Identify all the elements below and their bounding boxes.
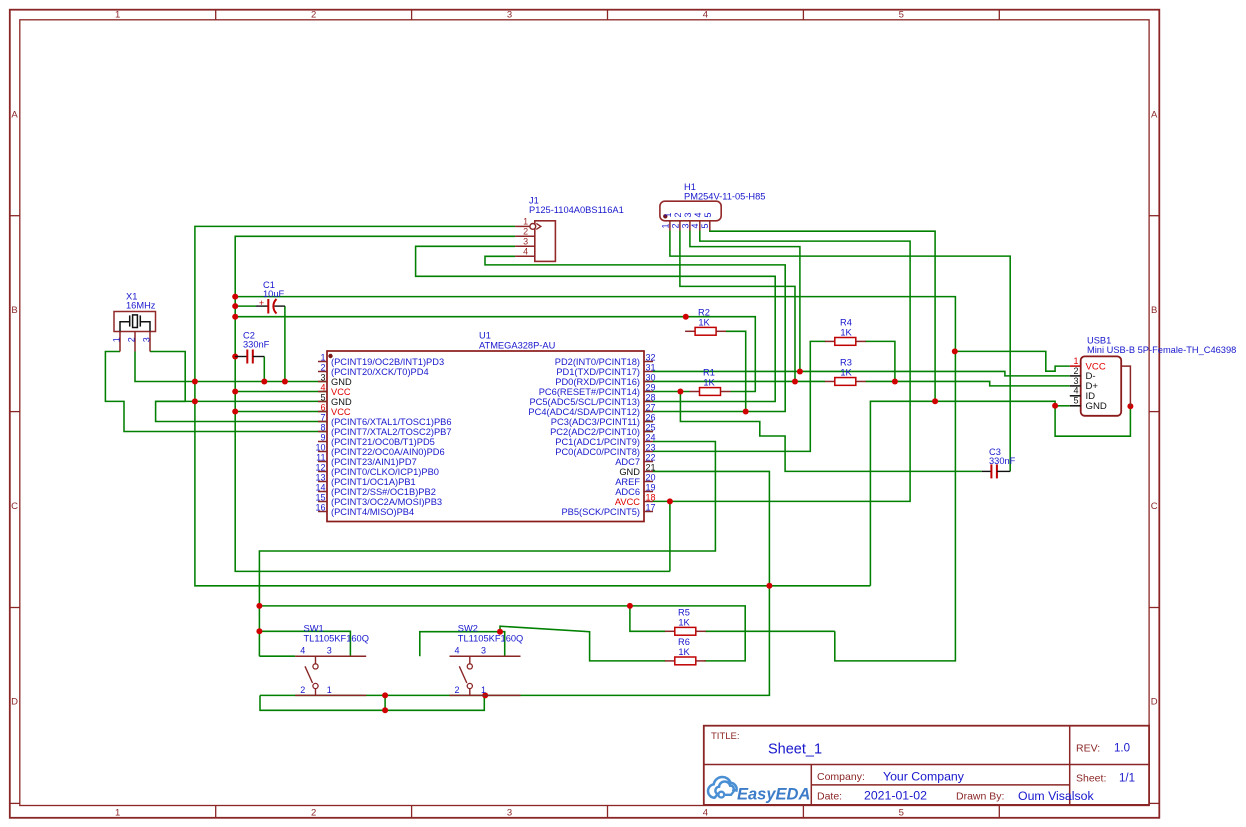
svg-text:4: 4 [455,645,460,655]
IC U1 pin 28 [644,401,653,403]
svg-text:R2: R2 [698,307,710,317]
svg-text:16MHz: 16MHz [126,301,156,311]
svg-text:4: 4 [703,10,708,21]
svg-text:1: 1 [1073,356,1078,366]
svg-text:22: 22 [646,452,656,462]
IC U1 pin 5 [318,401,327,403]
svg-text:1K: 1K [678,617,690,627]
switch SW2 contacts [450,655,521,657]
svg-text:(PCINT6/XTAL1/TOSC1)PB6: (PCINT6/XTAL1/TOSC1)PB6 [331,417,452,427]
svg-text:U1: U1 [479,331,491,341]
IC U1 pin 18 [644,501,653,503]
svg-text:3: 3 [683,212,693,217]
IC U1 pin 25 [644,431,653,433]
IC U1 pin 31 [644,371,653,373]
svg-text:3: 3 [507,10,512,21]
IC U1 pin 26 [644,421,653,423]
svg-text:3: 3 [142,337,152,342]
svg-text:13: 13 [315,472,325,482]
svg-text:Company:: Company: [817,771,865,783]
svg-text:1K: 1K [703,378,715,388]
svg-text:3: 3 [507,808,512,819]
svg-text:ATMEGA328P-AU: ATMEGA328P-AU [479,340,555,350]
svg-text:1/1: 1/1 [1119,773,1135,785]
connector H1 pins [669,221,671,231]
svg-text:2: 2 [311,808,316,819]
svg-text:26: 26 [646,412,656,422]
svg-text:2: 2 [523,227,528,237]
IC U1 pin 3 [318,381,327,383]
svg-text:20: 20 [646,472,656,482]
IC U1 pin 13 [318,481,327,483]
svg-text:R6: R6 [678,637,690,647]
svg-text:PC1(ADC1/PCINT9): PC1(ADC1/PCINT9) [555,437,640,447]
wire R5 right to VCC drop [705,630,835,632]
svg-text:(PCINT1/OC1A)PB1: (PCINT1/OC1A)PB1 [331,477,416,487]
svg-text:28: 28 [646,392,656,402]
svg-text:H1: H1 [684,182,696,192]
svg-text:1K: 1K [698,317,710,327]
connector J1 pins [515,225,530,227]
IC U1 pin 17 [644,511,653,513]
svg-text:4: 4 [523,247,528,257]
svg-text:R1: R1 [703,368,715,378]
svg-text:4: 4 [690,223,700,228]
wire H1 pin1 to C3 right [670,231,1010,472]
svg-text:2: 2 [320,362,325,372]
svg-text:5: 5 [320,392,325,402]
svg-text:330nF: 330nF [243,340,270,350]
svg-text:(PCINT3/OC2A/MOSI)PB3: (PCINT3/OC2A/MOSI)PB3 [331,497,442,507]
svg-text:17: 17 [646,502,656,512]
wire H1 pin5 to GND net [710,231,935,402]
svg-text:19: 19 [646,482,656,492]
svg-text:GND: GND [331,377,352,387]
svg-text:10uF: 10uF [263,289,285,299]
wire PD1 TXD row to USB D- [653,371,1070,375]
svg-text:(PCINT0/CLKO/ICP1)PB0: (PCINT0/CLKO/ICP1)PB0 [331,467,439,477]
svg-text:PC6(RESET#/PCINT14): PC6(RESET#/PCINT14) [539,387,640,397]
svg-text:9: 9 [320,432,325,442]
IC U1 pin 4 [318,391,327,393]
svg-text:SW2: SW2 [458,624,478,634]
svg-text:3: 3 [1073,376,1078,386]
svg-text:R3: R3 [840,358,852,368]
svg-text:PC5(ADC5/SCL/PCINT13): PC5(ADC5/SCL/PCINT13) [529,397,640,407]
svg-text:R5: R5 [678,607,690,617]
wire C1 negative to GND [284,306,286,381]
wire PC1 pin24 to SW1 rail [259,442,715,657]
IC U1 pin 16 [318,511,327,513]
svg-text:3: 3 [320,372,325,382]
svg-text:Sheet_1: Sheet_1 [768,742,822,758]
wire X1 pin1 to XTAL2 [105,352,653,432]
svg-text:10: 10 [315,442,325,452]
svg-text:32: 32 [646,352,656,362]
svg-text:P125-1104A0BS116A1: P125-1104A0BS116A1 [529,205,624,215]
wire C1 plus stub row [235,305,256,307]
resistor R5 [665,630,675,632]
capacitor C1 polarized [256,305,268,307]
IC U1 pin 12 [318,471,327,473]
svg-text:1: 1 [481,685,486,695]
svg-text:GND: GND [331,397,352,407]
svg-text:12: 12 [315,462,325,472]
svg-text:6: 6 [320,402,325,412]
svg-text:(PCINT7/XTAL2/TOSC2)PB7: (PCINT7/XTAL2/TOSC2)PB7 [331,427,452,437]
svg-text:ADC6: ADC6 [615,487,640,497]
svg-text:PD1(TXD/PCINT17): PD1(TXD/PCINT17) [556,367,640,377]
wire AVCC branch vertical [669,501,671,571]
svg-text:31: 31 [646,362,656,372]
resistor R6 [665,660,675,662]
IC U1 pin 6 [318,411,327,413]
svg-text:Your Company: Your Company [883,770,965,784]
svg-text:1K: 1K [840,327,852,337]
svg-text:D: D [1151,697,1158,708]
svg-text:R4: R4 [840,317,852,327]
svg-text:1K: 1K [840,368,852,378]
wire R1 left branch to DTR cap line [680,392,981,472]
IC U1 pin 27 [644,411,653,413]
svg-text:TITLE:: TITLE: [711,731,740,742]
wire button line y606 [259,606,745,661]
IC U1 pin 20 [644,481,653,483]
svg-text:8: 8 [320,422,325,432]
svg-text:D: D [11,697,18,708]
svg-text:30: 30 [646,372,656,382]
wire R4 right to D+ junction [865,341,895,381]
IC U1 pin 2 [318,371,327,373]
svg-text:PM254V-11-05-H85: PM254V-11-05-H85 [684,192,765,202]
svg-text:1: 1 [660,223,670,228]
svg-text:24: 24 [646,432,656,442]
svg-text:GND: GND [619,467,640,477]
svg-text:21: 21 [646,462,656,472]
wire GND bus riser to USB GND [870,401,1130,586]
svg-text:USB1: USB1 [1087,336,1111,346]
svg-text:4: 4 [300,645,305,655]
svg-text:PC2(ADC2/PCINT10): PC2(ADC2/PCINT10) [550,427,640,437]
svg-text:Date:: Date: [817,791,842,803]
svg-text:PC4(ADC4/SDA/PCINT12): PC4(ADC4/SDA/PCINT12) [528,407,640,417]
wire R3 right to USB D+ [865,381,1069,385]
svg-text:+: + [259,298,264,308]
wire J1 pin4 to PC4 SDA [485,256,785,411]
svg-text:29: 29 [646,382,656,392]
svg-text:1: 1 [112,337,122,342]
svg-text:4: 4 [693,212,703,217]
svg-text:18: 18 [646,492,656,502]
svg-text:VCC: VCC [331,407,351,417]
svg-text:PD0(RXD/PCINT16): PD0(RXD/PCINT16) [555,377,640,387]
svg-text:5: 5 [700,223,710,228]
IC U1 pin 24 [644,441,653,443]
wire C2 right to GND [263,357,265,382]
svg-text:5: 5 [703,212,713,217]
wire GND pin21 to switch bottom bus [260,471,769,695]
svg-text:1: 1 [327,685,332,695]
svg-text:(PCINT4/MISO)PB4: (PCINT4/MISO)PB4 [331,507,414,517]
wire GND pin5 row [156,400,195,402]
IC U1 pin 30 [644,381,653,383]
svg-text:B: B [11,305,17,316]
wire X1 pin3 to XTAL1 [150,352,653,422]
IC U1 pin 10 [318,451,327,453]
svg-text:Sheet:: Sheet: [1076,773,1106,785]
wire SW2 top loop [420,632,505,657]
svg-text:1: 1 [320,352,325,362]
capacitor C2 [235,356,247,358]
resistor R1 [690,391,700,393]
svg-text:ADC7: ADC7 [615,457,640,467]
svg-text:4: 4 [703,808,708,819]
title block frame [704,726,1149,805]
wire PD0 RXD row to R3 left [653,380,825,382]
wire R5 left riser [630,606,666,631]
svg-text:1K: 1K [678,647,690,657]
svg-text:A: A [1151,110,1158,121]
svg-text:PD2(INT0/PCINT18): PD2(INT0/PCINT18) [555,357,640,367]
IC U1 pin 15 [318,501,327,503]
svg-text:(PCINT22/OC0A/AIN0)PD6: (PCINT22/OC0A/AIN0)PD6 [331,447,445,457]
wire switch bottom bridge [384,695,386,710]
svg-text:PB5(SCK/PCINT5): PB5(SCK/PCINT5) [561,507,640,517]
svg-text:14: 14 [315,482,325,492]
svg-text:GND: GND [1086,401,1107,412]
svg-text:SW1: SW1 [304,624,324,634]
svg-text:2: 2 [1073,366,1078,376]
svg-text:PC0(ADC0/PCINT8): PC0(ADC0/PCINT8) [555,447,640,457]
svg-text:2: 2 [670,223,680,228]
svg-text:EasyEDA: EasyEDA [737,786,810,804]
connector USB1 shield wire [1121,366,1130,406]
svg-text:15: 15 [315,492,325,502]
svg-text:1: 1 [523,217,528,227]
svg-text:4: 4 [1073,386,1078,396]
svg-text:2: 2 [673,212,683,217]
wire H1 pin4 to AVCC [653,231,910,502]
IC U1 pin 23 [644,451,653,453]
wire GND rail left vertical [195,226,871,585]
wire RESET pin29 to R1 left [653,391,690,393]
wire X1 pin2 to GND row pin3 [135,352,653,382]
svg-text:AREF: AREF [615,477,640,487]
svg-text:2: 2 [300,685,305,695]
svg-text:2: 2 [127,337,137,342]
IC U1 pin 9 [318,441,327,443]
wire RESET pullup row y316 to R1 right [235,317,755,392]
svg-text:1: 1 [115,808,120,819]
svg-text:Mini USB-B 5P-Female-TH_C46398: Mini USB-B 5P-Female-TH_C46398 [1087,345,1236,355]
wire J1 pin3 to PC5 SCL [416,246,776,401]
svg-text:2: 2 [311,10,316,21]
wire H1 pin3 to PD1 TXD [690,231,800,372]
svg-text:4: 4 [320,382,325,392]
resistor R2 [685,330,695,332]
switch SW1 contacts [295,655,366,657]
connector H1 pin1 marker [663,214,667,218]
svg-text:PC3(ADC3/PCINT11): PC3(ADC3/PCINT11) [551,417,640,427]
wire R6 left to SW2 diagonal [500,626,666,661]
svg-text:1: 1 [115,10,120,21]
resistor R3 [825,380,835,382]
svg-text:11: 11 [316,452,325,462]
IC U1 pin 14 [318,491,327,493]
wire R4 left to PC0 row pin23 [653,341,826,451]
svg-text:B: B [1151,305,1157,316]
svg-text:(PCINT21/OC0B/T1)PD5: (PCINT21/OC0B/T1)PD5 [331,437,435,447]
svg-text:1: 1 [663,212,673,217]
connector J1 body [535,221,556,262]
IC U1 pin 22 [644,461,653,463]
svg-text:3: 3 [680,223,690,228]
IC U1 pin1 marker [328,354,332,358]
svg-text:3: 3 [481,645,486,655]
svg-text:C: C [1151,501,1158,512]
svg-text:5: 5 [899,10,904,21]
IC U1 pin 32 [644,361,653,363]
svg-text:3: 3 [327,645,332,655]
connector USB1 body [1081,356,1122,415]
wire SW1 top loop [259,631,350,656]
svg-text:VCC: VCC [331,387,351,397]
IC U1 pin 8 [318,431,327,433]
capacitor C3 [982,470,992,472]
ruler ticks [215,10,217,20]
svg-text:27: 27 [646,402,656,412]
svg-text:(PCINT2/SS#/OC1B)PB2: (PCINT2/SS#/OC1B)PB2 [331,487,436,497]
junction dots [192,379,198,385]
svg-text:AVCC: AVCC [615,497,640,507]
svg-text:Drawn By:: Drawn By: [956,791,1004,803]
IC U1 pin 29 [644,391,653,393]
svg-text:(PCINT23/AIN1)PD7: (PCINT23/AIN1)PD7 [331,457,417,467]
IC U1 pin 7 [318,421,327,423]
connector USB1 pins [1070,365,1081,367]
svg-text:REV:: REV: [1076,743,1100,755]
wire R2 right to SDA row [726,331,746,411]
connector H1 body [660,201,721,221]
IC U1 pin 21 [644,471,653,473]
svg-text:(PCINT20/XCK/T0)PD4: (PCINT20/XCK/T0)PD4 [331,367,429,377]
svg-text:(PCINT19/OC2B/INT1)PD3: (PCINT19/OC2B/INT1)PD3 [331,357,444,367]
svg-text:16: 16 [315,502,325,512]
svg-text:2021-01-02: 2021-01-02 [864,789,927,803]
wire USB GND pin stub link [1055,405,1070,407]
svg-text:TL1105KF160Q: TL1105KF160Q [458,633,523,643]
svg-text:25: 25 [646,422,656,432]
wire VCC top row to USB/R5 [235,297,955,661]
wire H1 pin2 to PD0 RXD [680,231,795,382]
svg-text:C: C [11,501,18,512]
IC U1 pin 11 [318,461,327,463]
crystal X1 pins [119,332,121,352]
EasyEDA logo [708,777,810,804]
wire switch bottom return loop [260,695,484,710]
svg-text:5: 5 [1073,396,1078,406]
wire VCC pin4 row [235,391,653,393]
IC U1 pin 1 [318,361,327,363]
svg-text:A: A [11,110,18,121]
svg-text:5: 5 [899,808,904,819]
resistor R4 [825,340,835,342]
svg-text:330nF: 330nF [989,456,1016,466]
IC U1 body [327,351,644,522]
wire VCC rail left vertical [235,236,670,571]
crystal X1 [114,312,156,332]
svg-text:7: 7 [320,412,325,422]
svg-text:23: 23 [646,442,656,452]
svg-text:1.0: 1.0 [1114,743,1130,755]
svg-text:Oum Visalsok: Oum Visalsok [1018,789,1094,803]
svg-text:TL1105KF160Q: TL1105KF160Q [304,633,369,643]
svg-text:3: 3 [523,237,528,247]
svg-text:2: 2 [455,685,460,695]
wire VCC to USB VCC pin1 [955,351,1070,371]
IC U1 pin 19 [644,491,653,493]
wire VCC pin6 row [235,411,653,413]
